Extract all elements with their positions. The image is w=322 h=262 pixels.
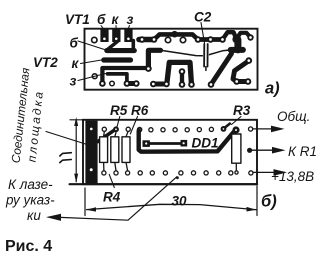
- strip hole 1: [90, 128, 93, 131]
- svg-text:б: б: [70, 36, 79, 51]
- resistor R5 body: [100, 132, 108, 171]
- Pi-shaped trace: [167, 62, 192, 84]
- pads with holes on top row: [139, 34, 254, 43]
- bottom pads with holes: [99, 57, 252, 87]
- dark pad 223 with tick: [221, 126, 227, 132]
- dim 30 right extension: [256, 186, 258, 216]
- pad R3 top: [232, 126, 239, 133]
- bottom right pads bar: [237, 79, 248, 84]
- ring pad under bridge 1: [165, 37, 170, 42]
- svg-text:Рис. 4: Рис. 4: [5, 238, 52, 255]
- pad stub e: [125, 36, 131, 42]
- svg-text:ки: ки: [27, 208, 41, 223]
- VT1 leg stub b: [100, 29, 108, 42]
- leader R3: [232, 117, 242, 125]
- VT1 leg stub e: [124, 29, 132, 42]
- svg-text:Общ.: Общ.: [277, 109, 310, 124]
- inner vertical trace: [180, 72, 184, 85]
- ring pad under bridge 2: [180, 37, 185, 42]
- svg-text:ру указ-: ру указ-: [5, 193, 55, 208]
- arc big pad to corner pad: [237, 33, 251, 39]
- arrow line 2 (K R1): [252, 149, 274, 151]
- arrow line 1 (Obsh): [253, 128, 274, 130]
- svg-text:к: к: [112, 12, 120, 27]
- top edge extension left: [70, 119, 83, 121]
- thick trace pad to R3 pad (below DD1): [139, 131, 235, 152]
- leader to strip (soedinitelnaya): [46, 132, 87, 145]
- junction dot on bridge: [171, 31, 178, 38]
- leader R6: [130, 117, 137, 135]
- trace diagonal from pad k to bar b: [108, 41, 119, 50]
- leader k: [81, 60, 105, 64]
- trace bar top with two pads: [139, 37, 154, 43]
- capacitor C2 plates: [203, 44, 209, 71]
- dim 30 line: [87, 204, 257, 209]
- dim 30 left extension: [84, 188, 86, 216]
- DD1 jumper: [143, 140, 188, 147]
- VT1 leg stub k: [112, 29, 120, 42]
- svg-text:R3: R3: [233, 103, 251, 118]
- pad stub k: [113, 36, 119, 42]
- board outline b: [83, 120, 257, 184]
- svg-text:VT2: VT2: [33, 55, 58, 70]
- svg-text:R6: R6: [131, 103, 149, 118]
- leader b: [78, 41, 106, 50]
- resistor R3 body: [232, 134, 241, 170]
- svg-text:DD1: DD1: [192, 136, 219, 151]
- label K lazeru ukazki: [5, 177, 55, 223]
- svg-text:К R1: К R1: [288, 144, 317, 159]
- trace bar e: [108, 74, 127, 84]
- bottom holes row: [102, 171, 253, 175]
- vertical trace to L-elbow + elbow to C2: [148, 50, 160, 68]
- svg-text:К лазе-: К лазе-: [8, 177, 53, 192]
- jumper wire diagonal: [98, 130, 115, 142]
- board outline a: [85, 29, 258, 90]
- ring pad small left: [92, 74, 97, 79]
- svg-text:30: 30: [172, 194, 188, 209]
- svg-text:+13,8В: +13,8В: [271, 169, 314, 184]
- top holes row: [102, 127, 253, 132]
- resistor middle body: [111, 132, 119, 170]
- pad stub b: [101, 36, 107, 42]
- tick b: [101, 26, 104, 30]
- C2 leader line: [201, 23, 205, 44]
- leader e: [78, 74, 106, 81]
- trace bar 2 long: [102, 68, 148, 84]
- arrow line 3 (+13.8V): [253, 171, 275, 173]
- tick k: [115, 26, 117, 30]
- svg-text:R4: R4: [103, 190, 121, 205]
- T-blob below big pad: [231, 40, 243, 50]
- svg-text:C2: C2: [194, 10, 212, 25]
- leader K lazeru: [61, 177, 177, 220]
- trace link pad e down to bar b: [132, 41, 136, 49]
- svg-text:б): б): [261, 193, 277, 211]
- middle right pad: [247, 148, 252, 153]
- svg-text:з: з: [127, 12, 134, 27]
- tick e: [128, 26, 130, 30]
- label 11 rotated (two digit strokes): [60, 153, 72, 156]
- rotated text soedinitelnaya ploshchadka: [9, 66, 47, 163]
- dark pad 139.5: [137, 127, 143, 133]
- ring pad bottom small: [110, 81, 115, 86]
- bottom pads bar E-F: [153, 82, 166, 87]
- svg-text:R5: R5: [110, 103, 128, 118]
- svg-text:б: б: [97, 12, 106, 27]
- dim 11 vertical line: [75, 121, 77, 182]
- trace bar b: [107, 48, 135, 53]
- connection strip (black): [85, 121, 97, 184]
- svg-text:а): а): [265, 80, 280, 98]
- svg-text:з: з: [70, 74, 77, 89]
- trace link pads: [198, 37, 223, 42]
- bottom pads bar C-D: [127, 81, 136, 86]
- long diagonal trace: [211, 54, 232, 85]
- bridge trace over ring pads: [154, 34, 198, 39]
- pad P0 ring: [92, 37, 97, 42]
- thin trace to C2 left: [161, 50, 205, 55]
- thin trace from C2 right: [208, 50, 231, 55]
- jumper pad: [113, 126, 119, 132]
- leader R5: [117, 117, 120, 127]
- trace bar k: [104, 57, 131, 62]
- bottom edge thicker: [70, 183, 257, 185]
- strip hole 2: [90, 168, 93, 171]
- svg-text:VT1: VT1: [65, 12, 90, 27]
- svg-text:к: к: [72, 56, 80, 71]
- trace rise to big pad: [223, 32, 237, 39]
- resistor R6 body: [122, 132, 130, 171]
- leader R4: [109, 174, 114, 187]
- hook trace right: [233, 61, 249, 82]
